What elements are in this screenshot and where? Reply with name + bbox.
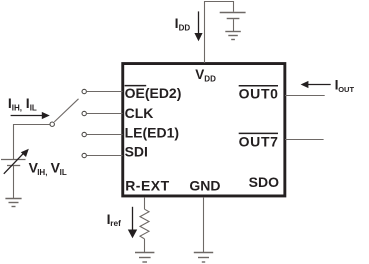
wire VDD riser [205,2,234,64]
wire source to ground [13,166,15,198]
switch S1 pole circle [50,122,54,126]
svg-text:IL: IL [60,168,67,177]
svg-text:OUT: OUT [338,85,354,94]
svg-text:V: V [195,67,204,82]
pin label VDD [195,67,216,84]
svg-text:CLK: CLK [125,105,154,121]
wire switch pole to source [14,125,50,160]
node terminal circle SDI [82,153,86,157]
label VIH, VIL [29,160,67,178]
node terminal circle CLK [82,111,86,115]
current arrow IIH/IIL [11,112,50,119]
wire OE pin stub [87,91,123,93]
ground (resistor) [135,253,154,263]
wire OUT7 stub [285,139,324,141]
IC U1 (device under test) [123,64,285,196]
ground (VDD battery) [225,32,241,40]
source VIH/VIL plate long [1,159,26,161]
current arrow IOUT [301,81,331,88]
wire LE pin stub [87,134,123,136]
wire OUT0 stub [285,95,325,97]
pin label R-EXT [125,177,170,193]
pin label SDI [125,144,148,160]
pin label OUT7 with overline [239,133,279,149]
current arrow IDD [194,11,202,41]
svg-text:DD: DD [204,75,216,84]
variable-source arrow [4,149,29,174]
pin label OUT0 with overline [239,85,279,101]
svg-text:GND: GND [189,177,220,193]
node terminal circle OE [82,89,86,93]
svg-text:OUT7: OUT7 [239,133,279,149]
switch S1 blade [54,99,78,122]
label Iref [107,211,122,228]
pin label GND [189,177,220,193]
svg-text:IL: IL [30,104,37,113]
wire SDI pin stub [87,155,123,157]
ground (left source) [5,199,21,207]
source VIH/VIL plate short [7,165,20,167]
svg-text:OE(ED2): OE(ED2) [125,85,182,101]
battery VDD plate short [227,18,240,20]
svg-text:IH,: IH, [37,168,47,177]
pin label CLK [125,105,154,121]
svg-text:R-EXT: R-EXT [125,177,170,193]
svg-text:IH,: IH, [12,104,22,113]
wire CLK pin stub [87,113,123,115]
wire resistor to ground [144,239,146,253]
svg-text:DD: DD [179,23,191,32]
pin label SDO [249,174,279,190]
node terminal circle LE [82,132,86,136]
pin label OE(ED2) with overline on OE [125,85,182,101]
wire R-EXT pin to resistor [144,197,146,209]
ground (GND pin) [194,253,213,263]
pin label LE(ED1) [125,125,179,141]
resistor R-EXT [140,209,149,239]
battery VDD plate long [220,12,246,14]
label IDD [175,15,191,33]
label IOUT [335,77,355,94]
label IIH, IIL [8,95,37,113]
current arrow Iref [128,207,137,238]
svg-text:SDI: SDI [125,144,148,160]
svg-text:ref: ref [110,218,121,228]
wire battery to ground [233,19,235,31]
svg-text:LE(ED1): LE(ED1) [125,125,179,141]
svg-text:OUT0: OUT0 [239,85,279,101]
svg-text:SDO: SDO [249,174,279,190]
wire GND pin to ground [203,197,205,252]
